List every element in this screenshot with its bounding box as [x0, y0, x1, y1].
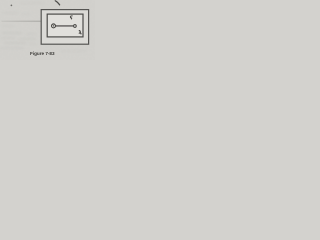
- stray accent mark above box: [55, 1, 59, 5]
- inner box: [47, 14, 83, 37]
- label a (curl mark above switch): [70, 16, 72, 19]
- svg-text:Figure 7-83: Figure 7-83: [30, 51, 55, 56]
- lamp P1 (circle with centre dot): [52, 24, 56, 28]
- label b (mark below-right of switch): [79, 31, 82, 35]
- paper background: [0, 0, 95, 60]
- switch pivot contact: [74, 25, 77, 28]
- faint ghost texture (page bleed-through): [0, 2, 86, 52]
- wire lead-in (left): [2, 21, 42, 22]
- outer box: [41, 10, 88, 45]
- paper grain: [0, 0, 95, 60]
- ink dot (top-left speck): [11, 5, 13, 7]
- wire (lamp to switch): [55, 25, 73, 27]
